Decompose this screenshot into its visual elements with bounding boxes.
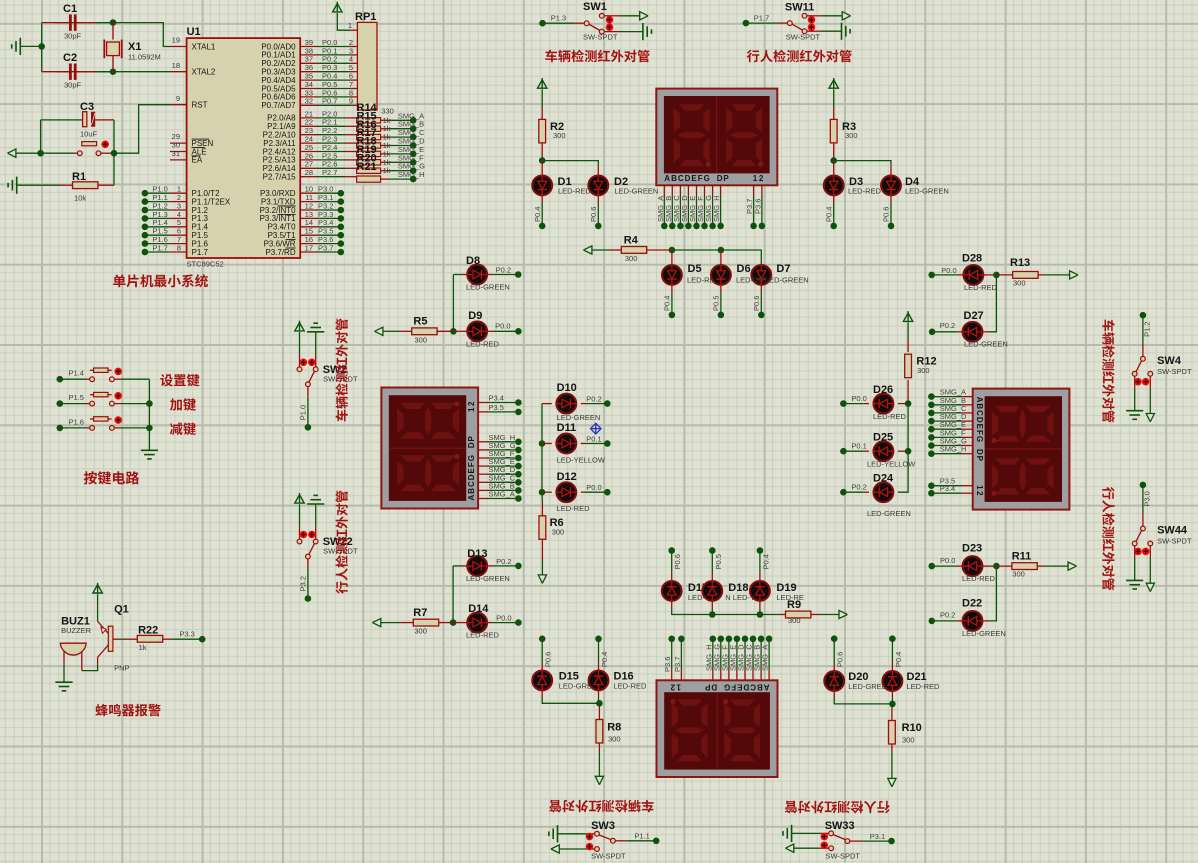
- resistor R19 row: [357, 151, 381, 156]
- wire: [489, 489, 518, 491]
- U1 left pin stubs: [170, 46, 187, 48]
- wire: [541, 639, 543, 663]
- node junction: [410, 142, 417, 149]
- op-amp U1 microcontroller STC89C52 body: [187, 38, 301, 258]
- power terminal: [829, 80, 838, 88]
- wire: [389, 170, 413, 172]
- node junction: [669, 223, 676, 230]
- svg-text:P1.5: P1.5: [69, 393, 84, 402]
- top display segment pins SMG_A..SMG_H: [663, 185, 665, 196]
- wire: [113, 120, 115, 153]
- svg-text:P0.0: P0.0: [940, 556, 955, 565]
- wire SW1 to power arrow: [604, 15, 620, 17]
- svg-text:SW11: SW11: [785, 2, 814, 14]
- node junction: [929, 329, 936, 336]
- switch terminal: [1141, 356, 1146, 361]
- resistor R21 row: [357, 176, 381, 182]
- svg-text:P0.0: P0.0: [586, 483, 601, 492]
- svg-text:Q1: Q1: [114, 604, 129, 616]
- resistor R22 1k: [125, 638, 137, 640]
- wire: [932, 331, 957, 333]
- svg-text:P0.5: P0.5: [712, 296, 721, 311]
- wire: [931, 492, 962, 494]
- svg-text:P0.0: P0.0: [851, 394, 866, 403]
- red indicator dot: [1142, 548, 1150, 556]
- wire: [120, 638, 126, 640]
- blue origin marker: [591, 423, 602, 434]
- wire: [317, 209, 341, 211]
- wire: [761, 196, 763, 226]
- red indicator dot: [808, 16, 816, 24]
- svg-text:SW-SPDT: SW-SPDT: [1157, 367, 1192, 376]
- resistor R13 300: [996, 274, 1012, 276]
- svg-text:D24: D24: [873, 473, 894, 485]
- wire: [317, 176, 345, 178]
- wire: [317, 134, 345, 136]
- switch terminal: [1132, 371, 1137, 376]
- wire: [932, 565, 957, 567]
- svg-text:LED-RED: LED-RED: [907, 682, 941, 691]
- wire: [720, 196, 722, 226]
- wire: [389, 128, 413, 130]
- svg-text:P0.5: P0.5: [714, 554, 723, 569]
- wire: [317, 243, 341, 245]
- node junction: [142, 198, 149, 205]
- wire: [17, 184, 60, 186]
- node junction: [1140, 312, 1147, 319]
- LED D3 LED-RED: [833, 161, 835, 176]
- terminal arrow: [595, 776, 603, 784]
- node junction: [515, 619, 522, 626]
- wire: [317, 79, 350, 81]
- terminal arrow: [372, 619, 380, 627]
- node junction: [142, 207, 149, 214]
- svg-text:XTAL2: XTAL2: [192, 68, 216, 77]
- node junction: [515, 487, 522, 494]
- svg-text:P1.7: P1.7: [192, 248, 209, 257]
- wire: [60, 427, 86, 429]
- wire: [989, 566, 996, 621]
- wire: [834, 161, 891, 166]
- wire: [299, 332, 301, 355]
- svg-text:P3.6: P3.6: [753, 199, 762, 214]
- svg-text:31: 31: [172, 149, 180, 158]
- svg-text:BUZZER: BUZZER: [61, 626, 92, 635]
- wire: [121, 378, 149, 380]
- wire: [898, 404, 908, 493]
- svg-text:XTAL1: XTAL1: [192, 42, 216, 51]
- wire: [145, 226, 170, 228]
- wire: [389, 119, 413, 121]
- svg-text:30pF: 30pF: [64, 32, 82, 41]
- wire: [299, 504, 301, 527]
- wire: [452, 275, 454, 332]
- switch terminal: [306, 554, 311, 559]
- wire: [620, 15, 639, 17]
- power terminal: [295, 495, 304, 503]
- caption: minus key: [170, 422, 196, 435]
- node junction: [410, 159, 417, 166]
- svg-text:SMG_H: SMG_H: [712, 195, 721, 222]
- svg-text:SW44: SW44: [1157, 525, 1188, 537]
- LED D1 LED-RED: [541, 161, 543, 176]
- node junction: [515, 455, 522, 462]
- node junction: [889, 701, 896, 708]
- node junction: [539, 157, 546, 164]
- node junction: [701, 223, 708, 230]
- resistor pack RP1: [357, 22, 377, 110]
- switch terminal: [297, 367, 302, 372]
- LED D7 LED-GREEN: [751, 265, 771, 285]
- wire: [492, 274, 518, 276]
- svg-text:RST: RST: [192, 101, 208, 110]
- svg-text:R8: R8: [607, 721, 621, 733]
- wire: [931, 485, 962, 487]
- wire: [41, 119, 80, 121]
- switch terminal: [1132, 541, 1137, 546]
- red indicator dot: [821, 842, 829, 850]
- node junction: [596, 700, 603, 707]
- switch terminal: [595, 831, 600, 836]
- svg-text:LED-RED: LED-RED: [962, 574, 996, 583]
- node junction: [410, 167, 417, 174]
- red indicator dot: [308, 359, 316, 367]
- node junction: [539, 636, 546, 643]
- node junction: [515, 463, 522, 470]
- svg-text:P3.6: P3.6: [663, 657, 672, 672]
- wire: [145, 192, 170, 194]
- reset button: [74, 152, 77, 154]
- wire: [145, 251, 170, 253]
- wire SW1 to ground: [604, 31, 620, 33]
- svg-text:P3.7: P3.7: [673, 657, 682, 672]
- bottom display digit pins P3.6 P3.7: [671, 669, 673, 680]
- node junction: [668, 547, 675, 554]
- wire: [55, 23, 170, 47]
- node junction: [905, 400, 912, 407]
- svg-text:1k: 1k: [139, 643, 147, 652]
- svg-text:P0.4: P0.4: [825, 207, 834, 222]
- node junction: [905, 448, 912, 455]
- ground symbol: [307, 331, 324, 333]
- red indicator dot: [808, 23, 816, 31]
- power terminal: [538, 80, 547, 88]
- red indicator dot: [1134, 548, 1142, 556]
- wire: [452, 566, 454, 623]
- wire: [121, 403, 149, 405]
- node junction: [57, 400, 64, 407]
- node junction: [928, 393, 935, 400]
- node junction: [199, 636, 206, 643]
- wire: [121, 427, 149, 429]
- node junction: [928, 434, 935, 441]
- node junction: [539, 489, 546, 496]
- wire: [317, 234, 341, 236]
- wire: [931, 445, 962, 447]
- wire: [598, 703, 600, 707]
- node junction: [766, 636, 773, 643]
- svg-text:LED-GREEN: LED-GREEN: [905, 187, 949, 196]
- node junction: [410, 134, 417, 141]
- wire: [40, 120, 42, 153]
- wire: [489, 411, 518, 413]
- caption: set key: [160, 374, 199, 387]
- node junction: [757, 547, 764, 554]
- wire: [317, 117, 345, 119]
- wire: [931, 453, 962, 455]
- node junction: [718, 312, 725, 319]
- svg-text:P1.0: P1.0: [298, 405, 307, 420]
- svg-text:P0.4: P0.4: [894, 652, 903, 667]
- svg-text:1 2: 1 2: [467, 401, 476, 412]
- caption: vehicle-detect IR pair (bottom, flipped): [549, 800, 653, 813]
- ground symbol: [557, 825, 559, 842]
- node junction: [928, 426, 935, 433]
- node junction: [450, 619, 457, 626]
- svg-text:P0.6: P0.6: [673, 554, 682, 569]
- LED D10 LED-GREEN: [542, 403, 552, 405]
- terminal arrow: [584, 246, 592, 254]
- terminal arrow: [839, 610, 847, 618]
- node junction: [338, 198, 345, 205]
- wire: [626, 840, 656, 842]
- wire: [931, 436, 962, 438]
- red indicator dot: [606, 23, 614, 31]
- wire R11 to arrow: [1037, 565, 1044, 567]
- svg-text:P3.4: P3.4: [489, 394, 504, 403]
- svg-text:D14: D14: [468, 603, 489, 615]
- red indicator dot: [101, 141, 109, 149]
- svg-text:300: 300: [415, 335, 428, 344]
- svg-text:P0.1: P0.1: [851, 442, 866, 451]
- node junction: [410, 125, 417, 132]
- node junction: [993, 563, 1000, 570]
- svg-text:D5: D5: [688, 263, 702, 275]
- wire: [492, 330, 518, 332]
- wire: [891, 698, 893, 704]
- wire: [20, 45, 41, 47]
- terminal arrow: [1146, 414, 1154, 422]
- svg-text:ABCDEFG: ABCDEFG: [975, 397, 984, 443]
- node junction: [410, 117, 417, 124]
- wire: [891, 704, 894, 708]
- node junction: [717, 223, 724, 230]
- wire: [145, 209, 170, 211]
- svg-text:DP: DP: [975, 449, 984, 462]
- wire: [931, 412, 962, 414]
- resistor R15 row: [357, 118, 381, 123]
- switch terminal: [1148, 541, 1153, 546]
- wire: [389, 145, 413, 147]
- node junction: [677, 223, 684, 230]
- terminal arrow: [375, 327, 383, 335]
- node junction: [757, 611, 764, 618]
- 7-segment display (right, rotated): [973, 389, 1070, 510]
- svg-text:P3.5: P3.5: [489, 403, 504, 412]
- wire: [843, 491, 863, 493]
- wire: [907, 323, 909, 340]
- wire: [890, 203, 892, 226]
- wire: [744, 639, 746, 669]
- node junction: [110, 19, 117, 26]
- wire: [381, 622, 400, 624]
- svg-text:R9: R9: [787, 599, 801, 611]
- svg-text:X1: X1: [128, 41, 141, 53]
- node junction: [928, 482, 935, 489]
- wire: [768, 639, 770, 669]
- node junction: [539, 440, 546, 447]
- wire: [114, 105, 170, 154]
- wire: [1149, 558, 1151, 583]
- wire: [687, 196, 689, 226]
- wire: [489, 498, 518, 500]
- node junction: [515, 271, 522, 278]
- node junction: [685, 223, 692, 230]
- svg-text:P0.6: P0.6: [752, 296, 761, 311]
- red indicator dot: [308, 531, 316, 539]
- wire: [541, 203, 543, 226]
- switch terminal: [802, 29, 807, 34]
- svg-text:30pF: 30pF: [64, 81, 82, 90]
- wire: [317, 251, 341, 253]
- wire: [541, 89, 543, 107]
- wire: [317, 46, 350, 48]
- node junction: [718, 247, 725, 254]
- wire: [96, 22, 113, 24]
- wire: [148, 379, 150, 450]
- wire: [171, 638, 202, 640]
- node junction: [678, 636, 685, 643]
- resistor R5 300: [399, 330, 412, 332]
- switch terminal: [96, 151, 101, 156]
- node junction: [595, 636, 602, 643]
- wire: [542, 697, 599, 703]
- svg-text:SW-SPDT: SW-SPDT: [591, 851, 626, 860]
- node junction: [142, 215, 149, 222]
- svg-text:9: 9: [176, 94, 180, 103]
- wire: [113, 153, 115, 185]
- terminal arrow: [551, 845, 559, 853]
- wire: [558, 833, 587, 835]
- svg-text:R4: R4: [624, 234, 639, 246]
- svg-text:P0.2: P0.2: [586, 395, 601, 404]
- P0 bus wires to RP1: [300, 46, 317, 48]
- svg-text:R5: R5: [413, 315, 427, 327]
- switch terminal: [595, 847, 600, 852]
- wire: [671, 551, 673, 574]
- node junction: [993, 272, 1000, 279]
- svg-text:P0.6: P0.6: [589, 207, 598, 222]
- switch terminal: [1148, 371, 1153, 376]
- wire: [317, 96, 350, 98]
- svg-text:300: 300: [902, 736, 915, 745]
- node junction: [709, 547, 716, 554]
- switch terminal: [584, 21, 589, 26]
- caption: vehicle-detect IR pair (right, vertical): [1102, 320, 1114, 423]
- svg-text:32: 32: [305, 97, 313, 106]
- node junction: [410, 151, 417, 158]
- svg-text:D28: D28: [962, 253, 982, 265]
- wire: [834, 698, 892, 704]
- power terminal: [333, 4, 342, 12]
- wire: [704, 196, 706, 226]
- svg-text:SW-SPDT: SW-SPDT: [826, 851, 861, 860]
- node junction: [338, 240, 345, 247]
- svg-text:P3.2: P3.2: [298, 576, 307, 591]
- terminal arrow: [640, 12, 648, 20]
- svg-text:300: 300: [625, 254, 638, 263]
- node junction: [604, 400, 611, 407]
- wire: [317, 142, 345, 144]
- switch terminal: [90, 426, 95, 431]
- wire: [711, 551, 713, 574]
- svg-text:D11: D11: [557, 422, 577, 434]
- svg-text:R13: R13: [1010, 257, 1030, 269]
- ground symbol: [1126, 410, 1143, 412]
- resistor R16 row: [357, 126, 381, 131]
- wire: [931, 396, 962, 398]
- wire: [712, 639, 714, 669]
- ground symbol: [16, 177, 18, 194]
- node junction: [515, 447, 522, 454]
- svg-text:10k: 10k: [74, 194, 86, 203]
- switch terminal: [90, 377, 95, 382]
- wire: [891, 753, 893, 778]
- wire: [60, 403, 86, 405]
- svg-text:R11: R11: [1012, 550, 1032, 562]
- svg-text:P0.0: P0.0: [495, 322, 510, 331]
- svg-text:P3.0: P3.0: [1142, 491, 1151, 506]
- terminal arrow: [888, 778, 896, 786]
- caption: plus key: [170, 398, 196, 411]
- resistor R12 300: [907, 340, 909, 353]
- svg-text:1: 1: [348, 21, 352, 30]
- resistor R9 300: [780, 614, 786, 616]
- svg-text:SW1: SW1: [583, 1, 607, 13]
- switch terminal: [829, 831, 834, 836]
- node junction: [889, 635, 896, 642]
- wire: [41, 23, 43, 72]
- wire: [672, 607, 780, 615]
- svg-text:P0.4: P0.4: [663, 296, 672, 311]
- crystal X1: [112, 23, 114, 40]
- svg-text:P1.4: P1.4: [69, 369, 84, 378]
- svg-text:ABCDEFG: ABCDEFG: [724, 682, 770, 691]
- wire: [97, 594, 99, 621]
- node junction: [515, 471, 522, 478]
- wire: [145, 234, 170, 236]
- node junction: [515, 328, 522, 335]
- wire: [663, 196, 665, 226]
- caption: pedestrian-detect IR pair (left, vertical): [335, 491, 347, 594]
- node junction: [539, 223, 546, 230]
- node junction: [305, 424, 312, 431]
- node junction: [604, 440, 611, 447]
- left display segment pins SMG_H..SMG_A: [478, 441, 489, 443]
- node junction: [142, 190, 149, 197]
- red indicator dot: [1134, 378, 1142, 386]
- wire: [317, 159, 345, 161]
- wire: [598, 697, 600, 703]
- wire: [696, 196, 698, 226]
- svg-text:LED-RED: LED-RED: [558, 187, 592, 196]
- svg-text:P0.0: P0.0: [941, 266, 956, 275]
- svg-text:LED-GREEN: LED-GREEN: [867, 509, 911, 518]
- switch terminal: [599, 13, 604, 18]
- LED D11 LED-YELLOW: [542, 443, 552, 445]
- svg-text:R1: R1: [72, 171, 86, 183]
- terminal arrow: [8, 149, 16, 157]
